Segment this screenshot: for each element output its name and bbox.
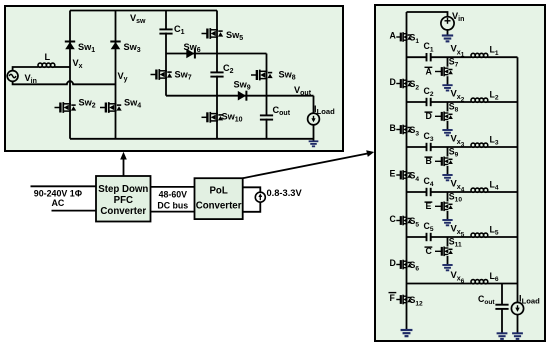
svg-text:D: D <box>390 258 396 268</box>
wire: Vin to ground <box>447 30 449 35</box>
wire: Vin top lead to inductor <box>13 67 38 71</box>
block: PoL Converter <box>195 178 243 219</box>
transistor S6 <box>396 260 412 270</box>
diode Sw1 <box>65 42 75 50</box>
wire: Vin bottom lead to node Vy (hop over Vx line) <box>13 81 116 84</box>
diode Sw6 <box>186 49 195 59</box>
capacitor C5 <box>427 233 431 241</box>
ground (left panel output) <box>309 141 319 146</box>
wire: S7 to ground <box>447 76 449 85</box>
ground (ILoad right) <box>512 333 523 339</box>
transistor S4 <box>396 170 412 180</box>
wire: C5 to node Vx5 <box>431 236 471 238</box>
transistor S3 <box>396 125 412 135</box>
wire: C1 to node Vx1 <box>431 56 471 58</box>
wire: row 3 from stack through C3 <box>407 146 427 148</box>
wire: bottom rail <box>70 138 314 140</box>
wire: S9 to ground <box>447 166 449 175</box>
wire: output right rail <box>517 57 519 302</box>
capacitor C4 <box>427 188 431 196</box>
inductor L4 <box>471 188 488 192</box>
wire: inductor to node Vx <box>55 66 71 68</box>
wire: input top rail <box>407 12 448 17</box>
panel: PFC converter schematic frame <box>5 6 343 151</box>
inductor L1 <box>471 53 488 57</box>
transistor S5 <box>396 216 412 226</box>
svg-text:AC: AC <box>51 198 64 208</box>
transistor S12 <box>396 295 412 305</box>
arrow: PoL to right schematic <box>243 154 368 179</box>
wire: ILoad to ground <box>517 315 519 333</box>
transistor S9 <box>435 157 453 167</box>
svg-text:F: F <box>390 293 396 303</box>
transistor S11 <box>435 247 453 257</box>
current source ILoad <box>313 96 315 114</box>
transistor S10 <box>435 202 453 212</box>
wire: Cout branch <box>501 284 503 305</box>
wire: input stack left rail <box>406 12 408 330</box>
wire: node Vx2 to S8 <box>447 102 449 112</box>
wire: C3 to node Vx3 <box>431 146 471 148</box>
wire: S10 to ground <box>447 211 449 220</box>
wire: Sw6 branch horizontal <box>166 53 267 55</box>
transistor Sw10 <box>202 112 224 123</box>
AC source Vin <box>7 71 18 82</box>
capacitor C1 <box>427 53 431 61</box>
wire: node Vx3 to S9 <box>447 147 449 157</box>
svg-text:PFC: PFC <box>114 195 133 206</box>
transistor Sw5 <box>202 28 224 39</box>
wire: C1 branch vertical <box>165 11 167 96</box>
svg-text:PoL: PoL <box>209 186 227 197</box>
wire: L5 to output rail <box>488 236 518 238</box>
svg-text:Converter: Converter <box>196 201 242 212</box>
inductor L5 <box>471 233 488 237</box>
capacitor C3 <box>427 143 431 151</box>
wire: phase leg B vertical <box>115 11 117 139</box>
svg-text:L: L <box>45 52 51 62</box>
panel: PoL converter schematic frame <box>375 5 545 341</box>
wire: L6 to output rail <box>488 283 518 285</box>
inductor L6 <box>471 280 488 284</box>
wire: top rail Vsw <box>70 10 217 12</box>
wire: L3 to output rail <box>488 146 518 148</box>
ground (S8 source) <box>442 130 452 135</box>
inductor L3 <box>471 143 488 147</box>
capacitor C1 <box>158 29 173 32</box>
ground (S9 source) <box>442 175 452 180</box>
svg-text:Step Down: Step Down <box>98 184 148 195</box>
svg-text:E: E <box>390 169 396 179</box>
wire: C2 to node Vx2 <box>431 101 471 103</box>
block: Step Down PFC Converter <box>96 176 151 222</box>
svg-text:48-60V: 48-60V <box>159 190 187 200</box>
capacitor C2 <box>427 98 431 106</box>
inductor L <box>38 63 55 67</box>
current source 0.8-3.3V load <box>255 192 265 202</box>
wire: S11 to ground <box>447 256 449 265</box>
wire: node Vx4 to S10 <box>447 192 449 202</box>
capacitor C2 <box>209 73 224 76</box>
svg-text:Converter: Converter <box>100 206 146 217</box>
transistor Sw8 <box>251 70 273 81</box>
wire: row 4 from stack through C4 <box>407 191 427 193</box>
capacitor Cout <box>259 116 274 119</box>
wire: DC bus bottom <box>151 211 195 213</box>
ground (S7 source) <box>442 85 452 90</box>
source Vin <box>441 17 454 30</box>
current source ILoad (right) <box>511 302 523 314</box>
ground (Vin source) <box>442 36 453 42</box>
svg-text:B: B <box>390 123 396 133</box>
svg-text:C: C <box>390 214 397 224</box>
diode Sw3 <box>110 42 120 50</box>
wire: L1 to output rail <box>488 56 518 58</box>
wire: row 1 from stack through C1 <box>407 56 427 58</box>
arrow: PFC to top schematic <box>123 159 125 177</box>
wire: row 2 from stack through C2 <box>407 101 427 103</box>
wire: node Vx5 to S11 <box>447 237 449 247</box>
wire: Sw8/Cout leg vertical <box>266 54 268 139</box>
wire: C2 leg vertical <box>216 11 218 139</box>
wire: L2 to output rail <box>488 101 518 103</box>
wire: row 5 from stack through C5 <box>407 236 427 238</box>
wire: AC input bottom <box>52 210 97 212</box>
wire: DC bus top <box>151 186 195 188</box>
svg-text:D: D <box>390 77 396 87</box>
wire: node Vx1 to S7 <box>447 57 449 66</box>
svg-text:0.8-3.3V: 0.8-3.3V <box>267 188 303 198</box>
transistor Sw2 <box>55 102 77 113</box>
wire: PoL output loop <box>243 187 261 212</box>
diode Sw9 <box>238 91 247 101</box>
wire: L4 to output rail <box>488 191 518 193</box>
transistor S7 <box>435 67 453 77</box>
inductor L2 <box>471 98 488 102</box>
ground (input stack bottom) <box>401 330 413 336</box>
transistor Sw4 <box>100 102 122 113</box>
svg-text:A: A <box>390 31 397 41</box>
transistor S8 <box>435 112 453 122</box>
ground (S10 source) <box>442 220 452 225</box>
capacitor Cout (right) <box>495 305 508 309</box>
transistor Sw7 <box>151 69 173 80</box>
transistor S2 <box>396 79 412 89</box>
ground (S11 source) <box>442 265 452 270</box>
wire: AC input top <box>31 185 97 187</box>
wire: C4 to node Vx4 <box>431 191 471 193</box>
svg-text:DC bus: DC bus <box>157 200 188 210</box>
wire: output diode row Vout <box>166 95 314 97</box>
wire: S8 to ground <box>447 121 449 130</box>
transistor S1 <box>396 32 412 42</box>
wire: row 6 from stack to node Vx6 <box>407 283 472 285</box>
wire: phase leg A vertical <box>69 11 71 139</box>
ground (Cout) <box>497 333 508 339</box>
